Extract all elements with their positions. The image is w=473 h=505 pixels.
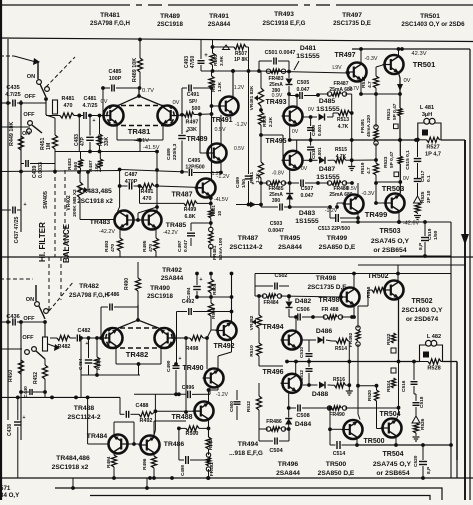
svg-text:C503: C503 [270,221,283,227]
wire R517 down [375,94,377,127]
svg-text:4.7: 4.7 [366,167,372,174]
wire -42.6 lower corner [449,443,453,447]
svg-text:0V: 0V [172,100,179,106]
svg-text:or 2SD674: or 2SD674 [406,316,439,323]
svg-text:C520: C520 [413,455,419,467]
svg-text:8,P: 8,P [418,242,424,250]
wire TR499 em rail [356,220,360,224]
svg-text:TR499: TR499 [365,210,388,219]
svg-text:C518: C518 [419,396,425,408]
svg-text:TR481: TR481 [128,127,151,136]
svg-text:TR497: TR497 [342,12,362,19]
wire lower switch column [44,322,46,337]
fusible resistor FR487 [327,92,331,96]
wire TR484 bases [88,443,108,445]
svg-text:1P 4,7: 1P 4,7 [425,152,441,158]
potentiometer VR451 wiper [46,115,55,118]
svg-text:2SC1403 O,Y or 2SD6: 2SC1403 O,Y or 2SD6 [401,21,465,28]
svg-text:2SA844: 2SA844 [278,244,302,251]
svg-text:L 482: L 482 [427,334,441,340]
svg-text:C481: C481 [84,96,97,102]
svg-text:TR501: TR501 [413,60,436,69]
svg-text:0.5V: 0.5V [234,146,245,152]
svg-text:2SA745 O,Y: 2SA745 O,Y [373,461,412,468]
wire TR497 emitter [360,81,362,94]
svg-text:TR489: TR489 [160,13,180,20]
svg-text:R513: R513 [337,117,349,123]
svg-text:C495: C495 [188,158,201,164]
svg-text:TR499: TR499 [327,235,348,242]
svg-text:D482: D482 [295,298,311,305]
svg-text:ON: ON [26,297,34,303]
svg-text:TR501: TR501 [420,13,440,20]
wire TR492 collector [231,297,233,321]
wire header underline [0,38,473,42]
left scan border [0,0,2,500]
wire TR504 emitter [395,437,397,445]
wire TR500 collector [357,386,359,414]
svg-text:TR494: TR494 [238,441,259,448]
svg-text:L 481: L 481 [420,105,434,111]
wire lower -42.6 rail [357,444,451,446]
svg-text:R503: R503 [213,54,219,66]
svg-text:OFF: OFF [24,94,36,100]
transistor TR489 [208,144,227,163]
wire TR495 base [261,134,283,136]
svg-text:-0.3V: -0.3V [365,56,378,62]
wire bottom bus 478 [0,477,473,479]
svg-text:OFF: OFF [23,316,35,322]
wire R499 link [209,196,213,200]
svg-text:0V: 0V [292,129,299,135]
svg-text:or 2SB654: or 2SB654 [373,247,406,254]
svg-text:C487: C487 [125,172,138,178]
svg-text:5P/: 5P/ [189,99,197,105]
wire TR488 input join [154,394,156,411]
svg-text:-1.2V: -1.2V [325,208,338,214]
svg-text:C515 0,1: C515 0,1 [405,150,411,170]
svg-text:FR492: FR492 [348,332,354,347]
svg-text:R497: R497 [186,120,199,126]
svg-text:0V: 0V [403,78,410,84]
svg-text:C504: C504 [269,448,283,454]
transistor TR483 [115,211,134,230]
svg-text:+: + [93,118,96,124]
svg-text:C512: C512 [299,370,304,381]
svg-text:470: 470 [110,244,116,252]
transistor TR500 [344,420,363,439]
wire TR483 bases join [80,219,114,221]
svg-text:2SA844: 2SA844 [208,21,231,28]
svg-text:+: + [204,53,208,59]
svg-text:TR497: TR497 [334,52,355,59]
svg-text:R520: R520 [367,390,372,401]
svg-text:3µH: 3µH [422,112,432,118]
wire -42.6V rail [341,221,451,223]
svg-text:-4L5V: -4L5V [214,197,229,203]
svg-text:R499: R499 [184,207,197,213]
capacitor C514 [329,429,331,445]
svg-text:R517: R517 [361,76,367,88]
wire TR491 collector [232,71,234,97]
wire dashed linkage lower [0,278,33,280]
svg-text:4.7: 4.7 [367,81,373,88]
wire TR481 collectors join [117,96,163,106]
wire lower-left verticals [7,257,9,420]
wire TR481 emitters down [116,125,118,140]
fusible resistor FR485 [266,181,270,185]
wire TR503 emitter [398,212,400,222]
fusible resistor FR489 [327,181,331,185]
wire TR504 base [375,384,379,388]
wire lower rail 281 [254,280,256,282]
svg-text:2SA850 D,E: 2SA850 D,E [318,470,355,477]
svg-text:R523: R523 [383,156,389,168]
svg-text:TR500: TR500 [326,461,347,468]
svg-text:R449 10K: R449 10K [9,122,15,146]
svg-text:+: + [179,356,182,362]
svg-text:C510: C510 [299,347,304,358]
svg-text:R514: R514 [335,346,347,352]
transistor TR501 [385,55,404,74]
svg-text:C494: C494 [186,287,192,299]
svg-text:C490: C490 [166,360,172,372]
svg-text:5P 0,47: 5P 0,47 [389,151,395,168]
fusible resistor FR484 [262,294,266,298]
svg-text:TR504: TR504 [382,451,403,458]
svg-text:-1.2V: -1.2V [210,171,223,177]
wire -42.6 corner [397,220,401,224]
svg-text:C486: C486 [107,292,120,298]
svg-text:TR487: TR487 [238,235,259,242]
svg-text:10: 10 [217,210,222,216]
wire TR492 emitter [231,340,233,352]
svg-text:2SC1735 D,E: 2SC1735 D,E [333,20,371,27]
transistor TR481b [158,106,178,126]
svg-text:L9V: L9V [332,65,342,71]
wire feedback row [236,204,261,206]
wire output rail [290,139,418,141]
svg-text:R510: R510 [249,345,255,357]
svg-text:2SA844: 2SA844 [161,275,184,282]
svg-text:2SA850 D,E: 2SA850 D,E [319,244,356,251]
wire TR502 emitter [398,299,400,362]
wire output arrow [461,234,469,245]
fusible resistor FR488 [323,315,327,319]
wire TR482 input [0,348,22,350]
wire TR489 base [199,114,201,153]
svg-text:TR483,485: TR483,485 [78,188,112,195]
svg-text:TR491: TR491 [211,117,232,124]
wire TR491 base link [212,105,221,107]
svg-text:-0.3V: -0.3V [362,191,375,197]
svg-text:R516: R516 [333,377,345,383]
wire switch column [45,99,47,103]
svg-text:33K: 33K [187,127,197,133]
wire TR493 collector [296,96,298,108]
wire TR484 collector [113,422,115,434]
svg-text:45mA 220: 45mA 220 [366,115,372,138]
svg-text:390: 390 [272,198,281,204]
wire TR497 base [346,71,350,75]
svg-text:C489: C489 [166,148,172,160]
svg-text:42.3V: 42.3V [411,51,426,57]
wire TR488 emitter top [208,390,210,402]
svg-text:C491: C491 [187,92,200,98]
svg-text:2SC1918 E,F,G: 2SC1918 E,F,G [263,20,306,27]
svg-text:C505: C505 [297,80,310,86]
svg-text:1M: 1M [46,143,52,150]
wire dashed linkage upper [46,57,75,87]
svg-text:TR502: TR502 [411,298,432,305]
svg-text:0V: 0V [403,176,410,182]
svg-text:C435: C435 [6,85,19,91]
wire C519 bottom [400,255,451,257]
svg-text:4.7K: 4.7K [338,124,349,130]
svg-text:4.7/25: 4.7/25 [5,92,21,98]
transistor TR496 [283,374,302,393]
wire TR495 emitter [289,170,291,184]
svg-text:D484: D484 [295,421,311,428]
switch SW ON upper [37,80,42,85]
svg-text:TR482: TR482 [79,283,99,290]
svg-text:470: 470 [143,196,152,202]
svg-text:1S1555: 1S1555 [295,218,319,225]
svg-text:1S1555: 1S1555 [316,106,340,113]
wire mid right connectors [397,265,399,274]
svg-text:TR503: TR503 [379,228,400,235]
transistor TR481 dual package [113,105,168,107]
svg-text:0.047: 0.047 [297,87,310,93]
wire TR498 emitter [353,306,355,317]
ground C517 [414,215,421,217]
transistor TR482 dual package [112,327,166,329]
svg-text:R482: R482 [58,344,71,350]
svg-text:2SC1403 O,Y: 2SC1403 O,Y [402,307,443,314]
svg-text:6.8K: 6.8K [185,214,196,220]
svg-text:R528: R528 [427,366,440,372]
wire rail 42.3V right [352,48,470,50]
wire TR497 collector [360,49,362,63]
svg-text:1/50: 1/50 [433,230,439,240]
transistor TR487 [197,179,216,198]
wire C497 link [191,222,211,224]
transistor TR495 [284,151,303,170]
wire dashed balance linkage [54,170,56,257]
svg-text:2SA798 F,G,H: 2SA798 F,G,H [90,20,130,27]
resistor R499 horiz [184,201,197,206]
svg-text:0.0033: 0.0033 [38,162,44,178]
wire TR500 base [330,428,342,430]
ground D488 node [346,390,353,392]
transistor TR482a [103,328,123,348]
svg-text:R495: R495 [142,240,148,252]
svg-text:or 2SB654: or 2SB654 [376,470,409,477]
svg-text:1S1555: 1S1555 [316,174,340,181]
svg-text:C501 0.0047: C501 0.0047 [265,50,296,56]
transistor TR503 [386,194,405,213]
transistor TR485 [143,211,162,230]
wire upper-left mesh [55,151,140,153]
wire TR481 input [0,126,30,128]
svg-text:R496: R496 [142,458,148,470]
transistor TR499 [345,195,364,214]
svg-text:R500: R500 [186,431,199,437]
svg-text:0.1: 0.1 [426,175,432,182]
wire TR498 base [339,295,343,299]
svg-text:R519: R519 [360,162,366,174]
fusible resistor FR483 [266,69,270,73]
svg-text:TR481: TR481 [100,12,120,19]
svg-text:OFF: OFF [23,112,35,118]
svg-text:R521: R521 [386,108,392,120]
svg-text:C516: C516 [401,380,407,392]
svg-text:12P/500: 12P/500 [185,165,204,171]
switch SW lower ON [35,302,40,307]
wire comp rail [120,170,188,173]
svg-text:571: 571 [0,485,11,492]
svg-text:500: 500 [192,106,201,112]
svg-text:TR491: TR491 [209,13,229,20]
svg-text:0V: 0V [301,166,308,172]
svg-text:2.2K: 2.2K [268,116,274,127]
svg-text:TR490: TR490 [150,285,170,292]
wire TR499 emitter [357,213,359,222]
wire TR499 collector [357,183,359,195]
svg-text:1.2K: 1.2K [217,81,223,92]
svg-text:0.7V: 0.7V [349,86,360,92]
svg-text:2SC1735 D,E: 2SC1735 D,E [307,284,347,291]
wire TR494 collector [295,317,297,331]
svg-text:OFF: OFF [22,335,34,341]
svg-text:C437 47/25: C437 47/25 [14,216,20,243]
svg-text:R511: R511 [249,171,255,183]
svg-text:C514: C514 [333,451,346,457]
svg-text:R483: R483 [67,158,73,170]
svg-text:2SC1918 x2: 2SC1918 x2 [77,198,113,205]
wire TR493-495 join [289,125,291,140]
svg-text:+: + [23,202,26,208]
svg-text:FR490: FR490 [329,412,345,418]
transistor TR502 [385,281,404,300]
svg-text:...918 E,F,G: ...918 E,F,G [229,450,263,457]
svg-text:2SA798 F,G,H: 2SA798 F,G,H [69,292,109,299]
wire TR500 emitter [356,439,358,445]
wire TR489 collector [220,115,222,144]
wire mid separator [0,256,473,258]
svg-text:34 O,Y: 34 O,Y [0,492,20,499]
svg-text:C482: C482 [78,328,91,334]
transistor TR486 [141,436,160,455]
svg-text:D481: D481 [300,45,316,52]
wire TR490 base [185,338,187,412]
resistor R507 [223,45,230,50]
svg-text:C508: C508 [296,413,309,419]
wire TR489-TR491 emitter [219,171,223,175]
transistor TR494 [283,331,302,350]
svg-text:C485: C485 [109,69,122,75]
potentiometer VR452 wiper [43,337,48,351]
svg-text:R527: R527 [426,145,439,151]
svg-text:-42.6V: -42.6V [403,221,420,227]
svg-text:2SC1124-2: 2SC1124-2 [230,244,263,251]
wire TR499 base [337,202,345,204]
wire TR482 tops join [116,320,161,329]
wire TR504 collector [398,362,400,415]
svg-text:TR486: TR486 [164,441,185,448]
transistor TR493 [284,107,303,126]
svg-text:R518: R518 [366,286,372,298]
svg-text:5P 0,47: 5P 0,47 [392,103,398,120]
svg-text:8,P: 8,P [426,466,432,474]
wire TR482 base lead [101,337,103,339]
svg-text:47P: 47P [80,136,86,146]
svg-text:TR498: TR498 [316,275,337,282]
fusible resistor FR490 [327,406,331,410]
svg-text:TR488: TR488 [74,405,95,412]
wire mid separator2 [358,264,465,266]
wire right bus verticals [456,460,458,478]
wire TR481 out to R497 [177,114,182,117]
svg-text:2SC1918: 2SC1918 [157,21,183,28]
svg-text:TR500: TR500 [363,438,384,445]
svg-text:1.2V: 1.2V [234,85,245,91]
wire input top link [0,55,14,57]
wire TR503 collector [376,181,400,183]
svg-text:0.047: 0.047 [301,193,314,199]
svg-text:-42.2V: -42.2V [99,229,115,235]
wire lower column join [44,392,46,397]
svg-text:1S1555: 1S1555 [296,53,320,60]
svg-text:C513 22P/500: C513 22P/500 [318,226,350,232]
svg-text:HI. FILTER: HI. FILTER [38,222,47,262]
wire TR487 collector [211,114,213,179]
svg-text:TR498: TR498 [318,297,339,304]
node lower switch junction [43,320,47,324]
svg-text:-1.2V: -1.2V [216,392,229,398]
svg-text:+: + [199,277,202,283]
wire TR503 base [376,202,386,204]
svg-text:4.7/25: 4.7/25 [83,103,98,109]
wire TR488 base lead [155,410,199,412]
wire left input verticals [7,39,9,257]
switch SW lower [28,121,33,126]
svg-text:1/50: 1/50 [241,179,246,188]
wire TR488 collector [208,421,210,438]
svg-text:2SC1918: 2SC1918 [147,293,173,300]
transistor TR504 [383,419,402,438]
svg-text:0V: 0V [100,99,107,105]
svg-text:C488: C488 [136,403,149,409]
wire TR486 collector [153,421,155,435]
svg-text:FR491: FR491 [360,118,366,133]
svg-text:ON: ON [22,131,30,137]
wire TR502 collector [397,274,399,282]
diode D481 [286,79,293,85]
svg-text:C500: C500 [229,401,234,412]
svg-text:R481: R481 [62,96,75,102]
svg-text:TR493: TR493 [274,11,294,18]
wire bottom bus 488 [55,487,435,489]
svg-text:R498: R498 [186,346,199,352]
svg-text:2P 10: 2P 10 [426,190,432,203]
svg-text:2SA844: 2SA844 [276,470,300,477]
svg-text:C502: C502 [275,273,288,279]
svg-text:TR483: TR483 [90,219,111,226]
svg-text:TR495: TR495 [280,235,301,242]
transistor TR488 [195,402,214,421]
wire R521 col [414,138,418,142]
